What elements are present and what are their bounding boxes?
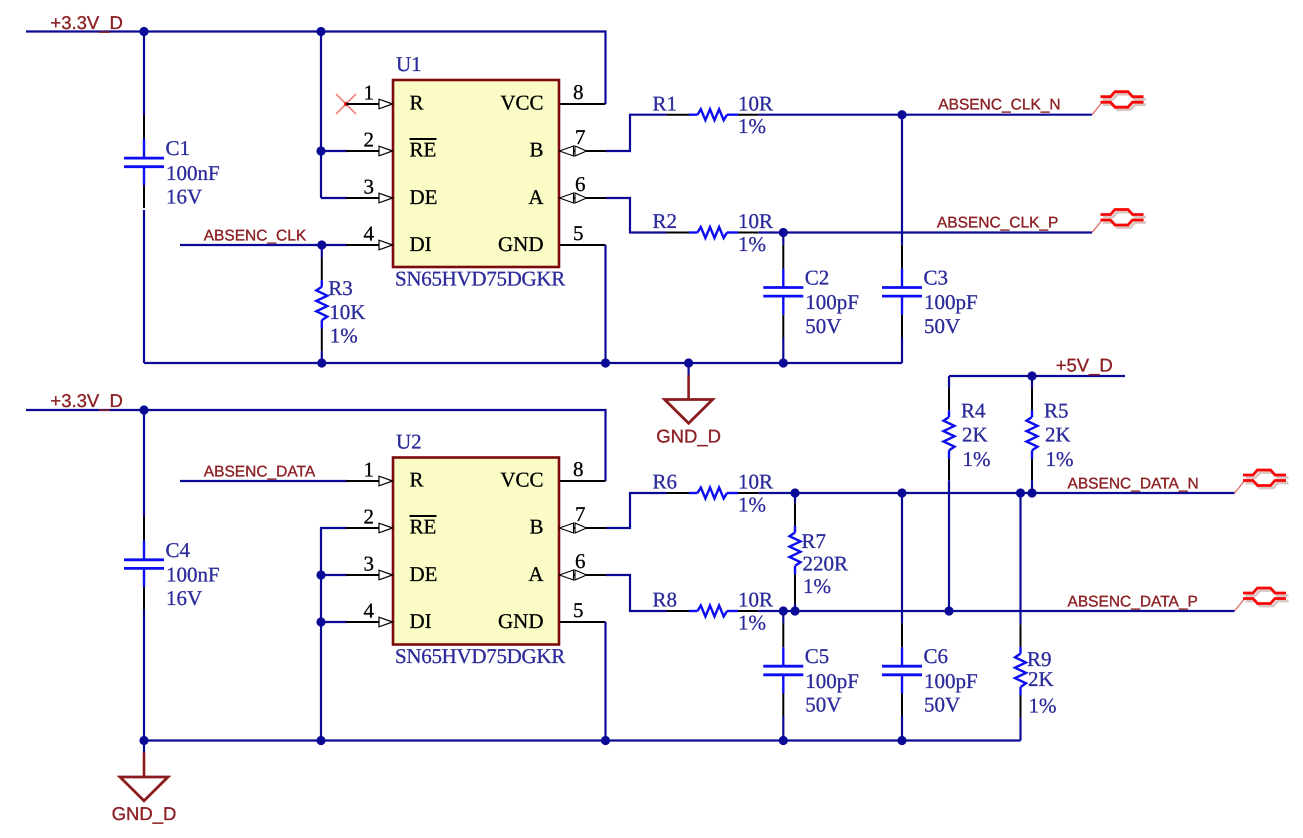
- svg-text:1: 1: [364, 458, 375, 482]
- junction C4 / GND_D at ground rail: [139, 736, 148, 745]
- svg-text:SN65HVD75DGKR: SN65HVD75DGKR: [395, 266, 565, 290]
- svg-text:10R: 10R: [738, 209, 773, 233]
- junction pin5 riser at ground rail 2: [601, 736, 610, 745]
- wire +5V rail to R4: [948, 376, 950, 388]
- svg-text:100pF: 100pF: [924, 669, 978, 693]
- wire R9 to ground rail 2: [1019, 717, 1021, 740]
- svg-text:R3: R3: [328, 276, 353, 300]
- svg-text:1%: 1%: [803, 574, 831, 598]
- svg-text:1%: 1%: [738, 232, 766, 256]
- svg-text:U2: U2: [396, 430, 422, 454]
- resistor R6: [653, 470, 774, 517]
- svg-text:1%: 1%: [1046, 447, 1074, 471]
- svg-text:10R: 10R: [738, 91, 773, 115]
- svg-text:A: A: [528, 562, 544, 586]
- svg-text:6: 6: [575, 172, 586, 196]
- svg-text:R: R: [410, 91, 424, 115]
- junction on bottom +3.3V rail at C4: [139, 405, 148, 414]
- svg-text:GND_D: GND_D: [112, 803, 177, 824]
- wire U1 pin 6 A to R2: [606, 198, 667, 233]
- svg-text:7: 7: [575, 502, 586, 526]
- svg-text:50V: 50V: [805, 314, 841, 338]
- svg-text:+5V_D: +5V_D: [1056, 355, 1113, 376]
- junction DATA_P / R7: [790, 606, 799, 615]
- U2 pin 6 wire A: [560, 570, 607, 580]
- svg-text:R2: R2: [653, 209, 678, 233]
- svg-text:50V: 50V: [924, 314, 960, 338]
- ground rail circuit 2: [144, 739, 1021, 741]
- svg-text:7: 7: [575, 125, 586, 149]
- no-connect X on U1 pin 1: [336, 94, 356, 114]
- svg-text:ABSENC_CLK_N: ABSENC_CLK_N: [938, 96, 1060, 113]
- wire ABSENC_DATA to U2 pin R: [180, 480, 347, 482]
- svg-text:R: R: [410, 468, 424, 492]
- svg-text:ABSENC_CLK: ABSENC_CLK: [204, 228, 307, 245]
- junction on +3.3V rail at enable tie: [316, 27, 325, 36]
- svg-text:R5: R5: [1044, 398, 1069, 422]
- svg-text:VCC: VCC: [500, 468, 543, 492]
- junction pin5 riser at ground rail: [601, 358, 610, 367]
- wire CLK_P junction to C2: [782, 233, 784, 245]
- wire +5V rail to R5: [1031, 376, 1033, 388]
- svg-text:6: 6: [575, 549, 586, 573]
- wire U2 pin 7 B to R6: [606, 493, 667, 528]
- U2 pin 4 wire: [346, 617, 393, 627]
- svg-text:DE: DE: [410, 562, 438, 586]
- svg-text:50V: 50V: [924, 693, 960, 717]
- junction C6 at ground rail 2: [897, 736, 906, 745]
- svg-text:DE: DE: [410, 185, 438, 209]
- wire R1 to ABSENC_CLK_N port: [758, 110, 1092, 119]
- junction DATA_P / C5: [779, 606, 788, 615]
- off-sheet connector ABSENC_DATA_P: [1235, 588, 1289, 611]
- U2 pin 2 wire: [346, 523, 393, 533]
- power rail +3.3V_D (bottom): [26, 390, 606, 481]
- U2 pin 1 wire: [346, 476, 393, 486]
- svg-text:SN65HVD75DGKR: SN65HVD75DGKR: [395, 644, 565, 668]
- wire C3 to ground rail: [901, 338, 903, 364]
- junction +5V rail at R5: [1027, 371, 1036, 380]
- U2 pin 3 wire: [346, 570, 393, 580]
- wire R5 to DATA_N: [1031, 480, 1033, 493]
- junction CLK_N / C3: [897, 110, 906, 119]
- ground rail circuit 1: [144, 358, 902, 367]
- wire DI junction to R3: [321, 245, 323, 258]
- svg-text:C2: C2: [805, 266, 830, 290]
- junction DATA_P / R4: [944, 606, 953, 615]
- svg-text:100nF: 100nF: [166, 161, 220, 185]
- svg-text:2: 2: [364, 505, 375, 529]
- svg-text:R4: R4: [961, 398, 986, 422]
- svg-text:8: 8: [573, 80, 584, 104]
- svg-text:2: 2: [364, 128, 375, 152]
- junction DATA_N / R5: [1027, 488, 1036, 497]
- junction DATA_N / C6: [897, 488, 906, 497]
- svg-text:10K: 10K: [329, 300, 365, 324]
- svg-text:C3: C3: [924, 266, 949, 290]
- svg-text:1%: 1%: [963, 447, 991, 471]
- wire C2 to ground rail: [779, 338, 788, 368]
- svg-text:ABSENC_DATA_N: ABSENC_DATA_N: [1068, 476, 1199, 493]
- svg-text:2K: 2K: [1028, 667, 1054, 691]
- svg-text:100pF: 100pF: [924, 290, 978, 314]
- power rail +3.3V_D (top): [26, 12, 606, 104]
- svg-text:50V: 50V: [805, 693, 841, 717]
- svg-text:B: B: [529, 138, 543, 162]
- resistor R2: [653, 209, 774, 256]
- wire +3.3V rail to C4: [143, 410, 145, 517]
- svg-text:VCC: VCC: [500, 91, 543, 115]
- junction DATA_N / R9: [1016, 488, 1025, 497]
- svg-text:5: 5: [573, 598, 584, 622]
- U1 pin 2 wire: [346, 146, 393, 156]
- capacitor C5: [763, 623, 859, 716]
- U2 pin 8 wire VCC: [560, 480, 606, 482]
- wire C4 to ground rail 2: [139, 610, 148, 746]
- transceiver U1 SN65HVD75DGKR body: [346, 52, 606, 290]
- svg-text:RE: RE: [410, 515, 437, 539]
- U1 pin 5 wire GND: [560, 244, 606, 246]
- svg-text:R1: R1: [653, 91, 678, 115]
- junction DI pin 4 tie: [316, 617, 325, 626]
- wire ABSENC_CLK to DI: [180, 240, 347, 249]
- wire R7 to DATA_P: [794, 604, 796, 612]
- svg-text:16V: 16V: [166, 184, 202, 208]
- transceiver U2 SN65HVD75DGKR body: [346, 430, 606, 668]
- junction RE pin 2 tie: [316, 146, 325, 155]
- U1 pin 3 wire: [346, 193, 393, 203]
- off-sheet connector ABSENC_CLK_P: [1092, 210, 1146, 233]
- svg-text:ABSENC_DATA: ABSENC_DATA: [204, 464, 316, 481]
- wire U1 pin 5 GND to ground rail: [601, 245, 610, 368]
- junction DATA_N / R7: [790, 488, 799, 497]
- svg-text:4: 4: [364, 599, 375, 623]
- svg-text:C6: C6: [924, 644, 949, 668]
- resistor R3: [316, 258, 365, 352]
- wire C5 to ground rail 2: [779, 716, 788, 745]
- wire DATA_N junction down to C6: [901, 493, 903, 623]
- svg-text:1%: 1%: [330, 324, 358, 348]
- svg-text:8: 8: [573, 457, 584, 481]
- svg-text:2K: 2K: [1045, 422, 1071, 446]
- wire C6 to ground rail 2: [897, 716, 906, 745]
- svg-text:R8: R8: [653, 588, 678, 612]
- junction DE pin 3 tie: [316, 570, 325, 579]
- svg-text:4: 4: [364, 222, 375, 246]
- power rail +5V_D: [949, 355, 1125, 381]
- svg-text:100pF: 100pF: [805, 669, 859, 693]
- junction C5 at ground rail 2: [779, 736, 788, 745]
- svg-text:A: A: [528, 185, 544, 209]
- resistor R5: [1027, 388, 1074, 480]
- svg-text:C5: C5: [805, 644, 830, 668]
- svg-text:100pF: 100pF: [805, 290, 859, 314]
- svg-text:100nF: 100nF: [166, 563, 220, 587]
- resistor R1: [653, 91, 774, 138]
- U1 pin 6 wire A: [560, 193, 607, 203]
- svg-text:1%: 1%: [738, 492, 766, 516]
- svg-text:ABSENC_CLK_P: ABSENC_CLK_P: [937, 214, 1058, 231]
- U1 pin 7 wire B: [560, 146, 607, 156]
- svg-text:1%: 1%: [738, 610, 766, 634]
- off-sheet connector ABSENC_DATA_N: [1235, 470, 1289, 493]
- U1 pin 1 wire: [346, 99, 393, 109]
- resistor R4: [944, 388, 991, 480]
- wire R6 to ABSENC_DATA_N port: [758, 488, 1234, 497]
- U2 pin 5 wire GND: [560, 621, 606, 623]
- svg-text:1: 1: [364, 81, 375, 105]
- wire U1 pin 7 B to R1: [606, 115, 667, 151]
- junction CLK_P / C2: [779, 228, 788, 237]
- svg-text:B: B: [529, 515, 543, 539]
- resistor R9: [1015, 624, 1057, 717]
- wire U2 pin 6 A to R8: [606, 575, 667, 611]
- capacitor C1: [124, 115, 220, 208]
- svg-text:3: 3: [364, 552, 375, 576]
- svg-text:C1: C1: [166, 136, 191, 160]
- wire R3 to ground rail: [317, 351, 326, 367]
- wire enable tie vertical U2: [316, 528, 347, 745]
- junction on +3.3V rail at C1: [139, 27, 148, 36]
- svg-text:GND_D: GND_D: [656, 426, 721, 447]
- junction DI / R3: [317, 240, 326, 249]
- svg-text:3: 3: [364, 175, 375, 199]
- wire C1 to ground rail: [143, 210, 145, 363]
- wire R4 to DATA_P (crosses DATA_N): [948, 480, 950, 611]
- svg-text:GND: GND: [498, 232, 544, 256]
- wire DATA_P junction to C5: [782, 611, 784, 623]
- svg-text:R7: R7: [802, 529, 827, 553]
- wire R8 to ABSENC_DATA_P port: [758, 606, 1234, 615]
- ground symbol GND_D: [112, 741, 177, 825]
- svg-text:RE: RE: [410, 138, 437, 162]
- wire U2 pin 5 GND to ground rail 2: [601, 622, 610, 745]
- capacitor C2: [763, 245, 859, 338]
- svg-text:DI: DI: [410, 232, 432, 256]
- wire R2 to ABSENC_CLK_P port: [758, 228, 1092, 237]
- ground symbol GND_D: [656, 363, 721, 447]
- U1 pin 8 wire VCC: [560, 103, 606, 105]
- svg-text:+3.3V_D: +3.3V_D: [50, 390, 123, 411]
- svg-text:R6: R6: [653, 470, 678, 494]
- svg-text:1%: 1%: [1029, 694, 1057, 718]
- capacitor C4: [124, 517, 220, 611]
- junction R3 at ground rail: [317, 358, 326, 367]
- U2 pin 7 wire B: [560, 523, 607, 533]
- U1 pin 4 wire: [346, 240, 393, 250]
- svg-text:DI: DI: [410, 609, 432, 633]
- capacitor C6: [882, 623, 978, 716]
- off-sheet connector ABSENC_CLK_N: [1092, 92, 1146, 115]
- wire +3.3V rail to C1: [143, 32, 145, 116]
- resistor R7: [790, 503, 849, 603]
- svg-text:220R: 220R: [803, 552, 849, 576]
- wire CLK_N junction down to C3: [901, 115, 903, 245]
- wire DATA_N junction down to R9 (crosses DATA_P): [1019, 493, 1021, 624]
- wire enable tie vertical U1: [316, 32, 347, 199]
- svg-text:+3.3V_D: +3.3V_D: [50, 12, 123, 33]
- svg-text:C4: C4: [166, 538, 191, 562]
- wire DATA_N junction to R7: [794, 493, 796, 503]
- svg-text:ABSENC_DATA_P: ABSENC_DATA_P: [1068, 594, 1198, 611]
- resistor R8: [653, 588, 774, 635]
- junction tie at ground rail 2: [316, 736, 325, 745]
- svg-text:U1: U1: [396, 52, 422, 76]
- svg-text:2K: 2K: [962, 422, 988, 446]
- svg-text:GND: GND: [498, 609, 544, 633]
- capacitor C3: [882, 245, 978, 338]
- junction ground rail at GND_D: [684, 358, 693, 367]
- svg-text:10R: 10R: [738, 588, 773, 612]
- junction C2 at ground rail: [779, 358, 788, 367]
- svg-text:5: 5: [573, 221, 584, 245]
- svg-text:16V: 16V: [166, 586, 202, 610]
- svg-text:1%: 1%: [738, 114, 766, 138]
- svg-text:10R: 10R: [738, 470, 773, 494]
